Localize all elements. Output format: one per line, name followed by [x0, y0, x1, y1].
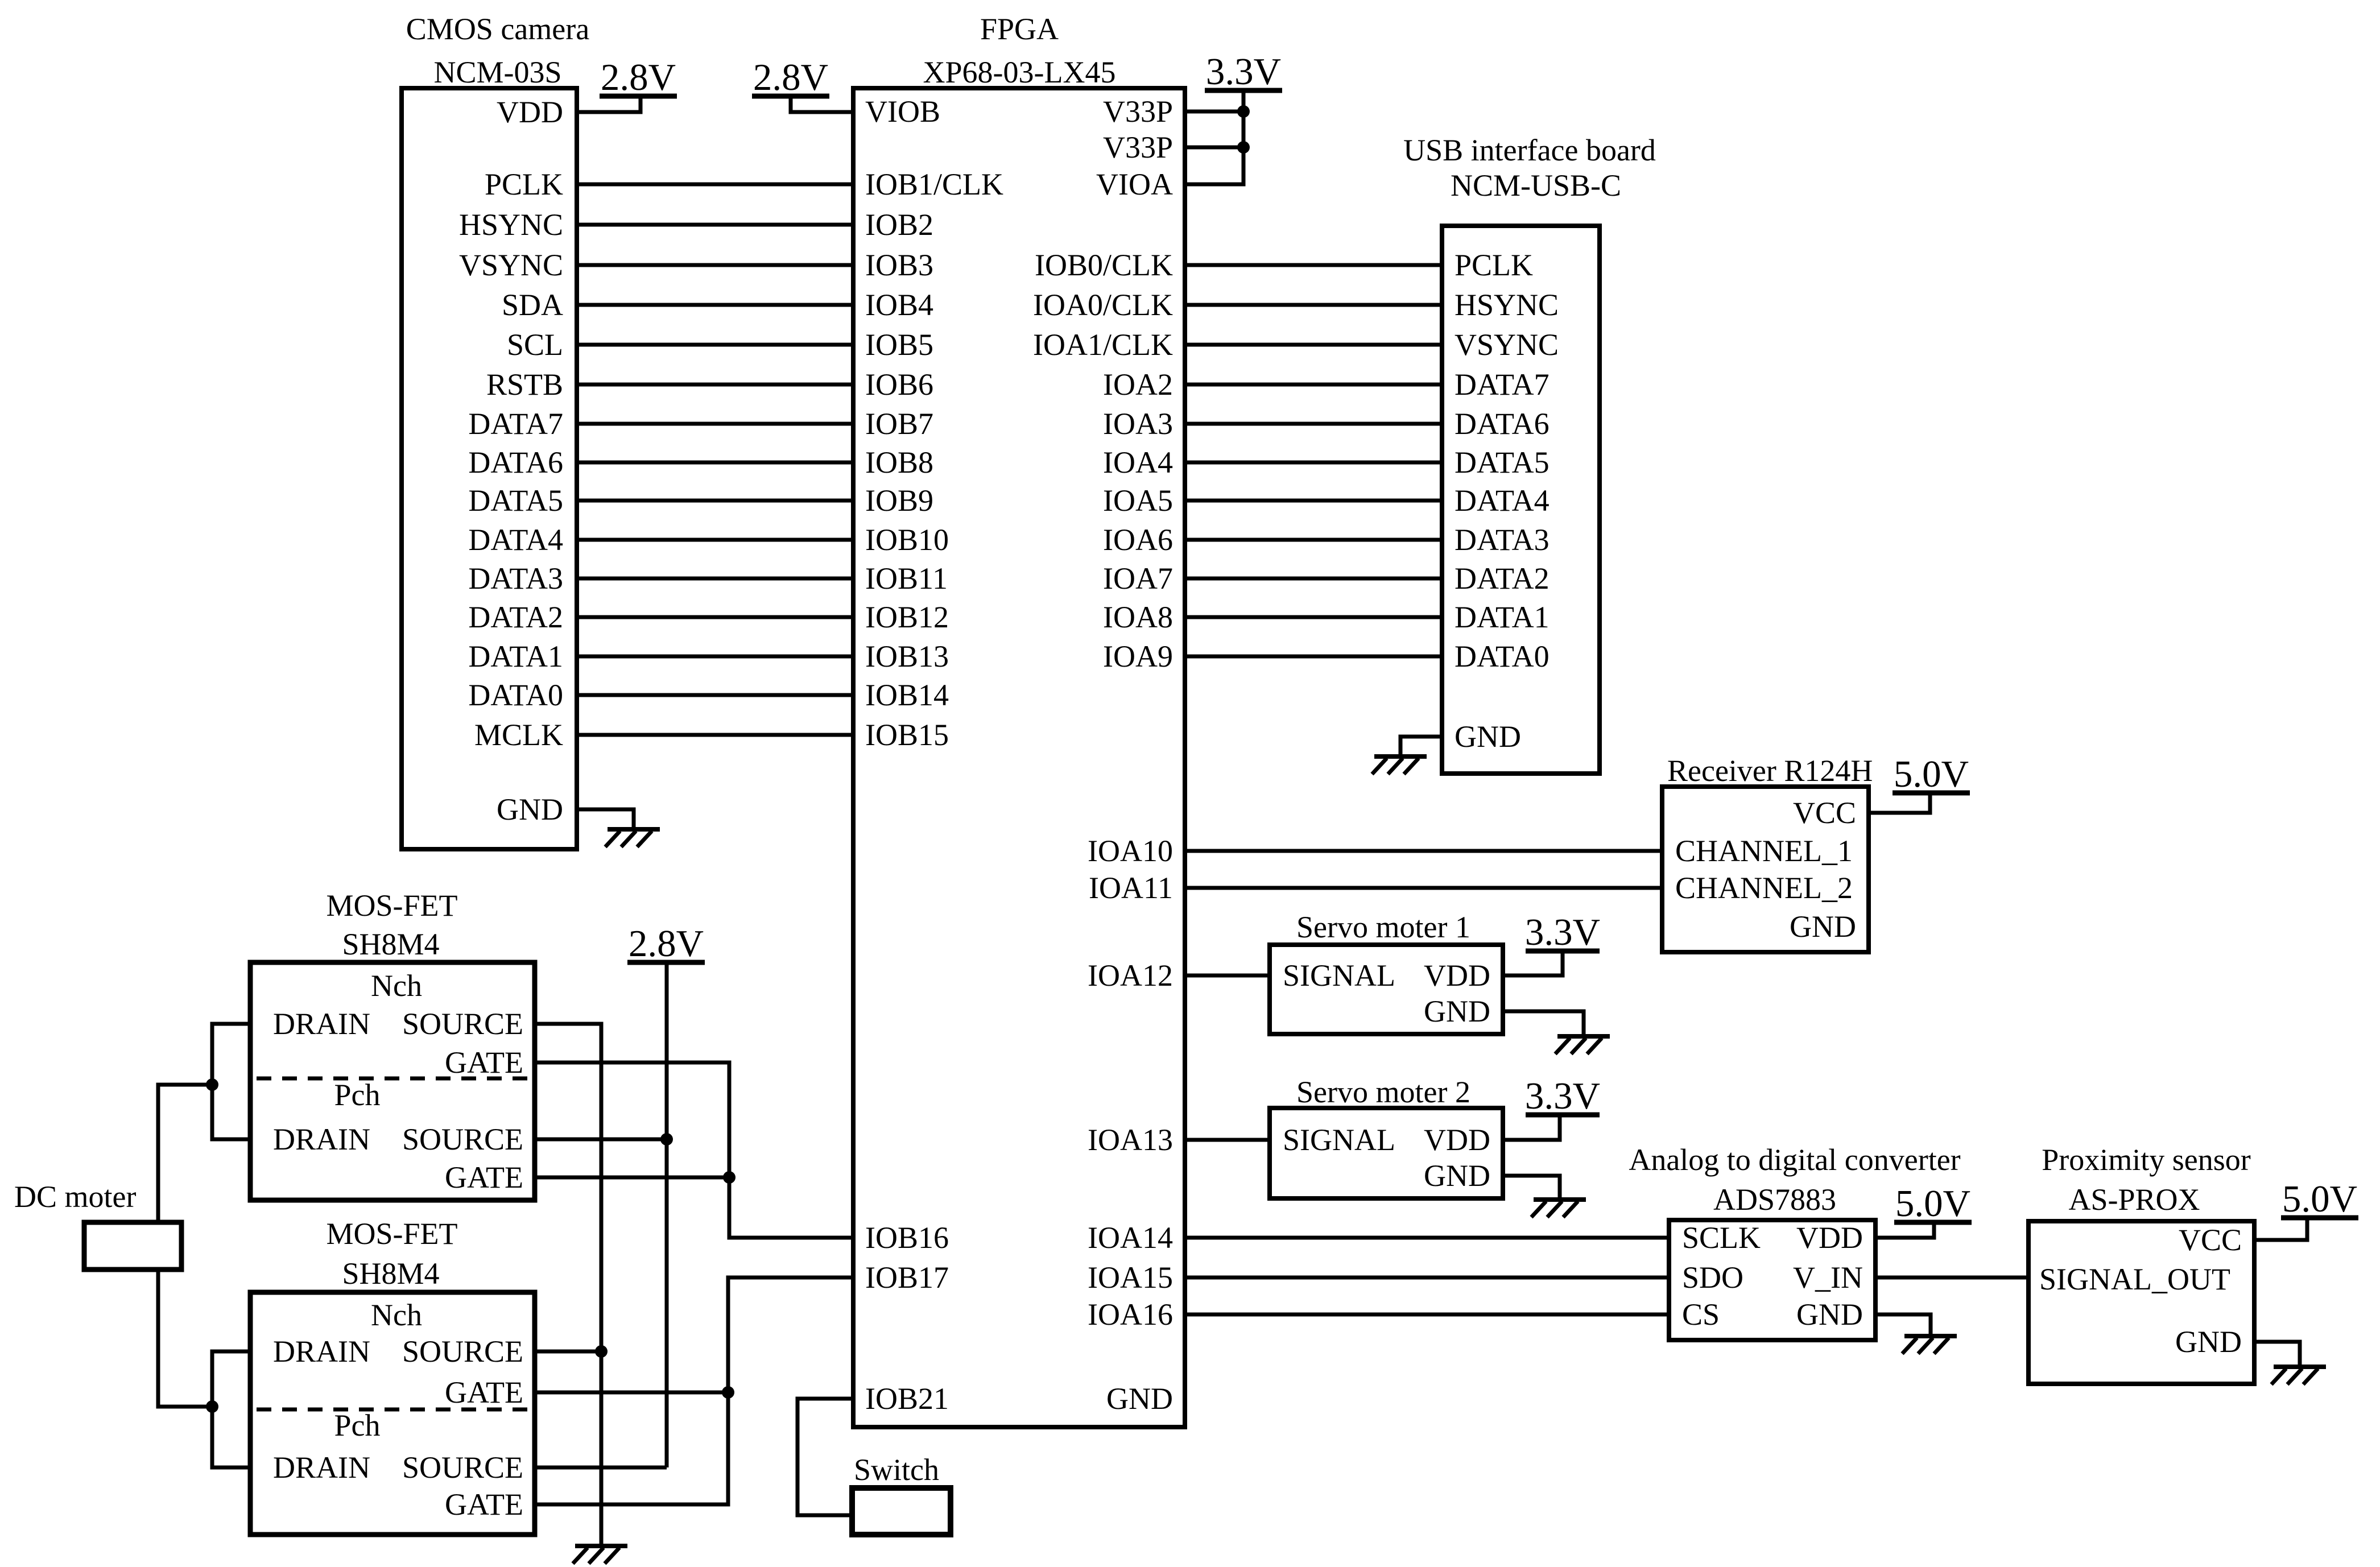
wire HSYNC-IOB2	[577, 223, 853, 227]
svg-text:CS: CS	[1682, 1297, 1720, 1332]
svg-text:Switch: Switch	[854, 1453, 939, 1487]
svg-text:GND: GND	[1455, 720, 1521, 754]
Receiver R124H box U4	[1662, 754, 1873, 952]
svg-text:IOB21: IOB21	[865, 1382, 949, 1416]
svg-text:IOB2: IOB2	[865, 208, 933, 242]
svg-text:SH8M4: SH8M4	[342, 927, 439, 961]
svg-text:2.8V: 2.8V	[753, 56, 828, 98]
wire receiver VCC to 5.0V	[1869, 793, 1930, 813]
svg-text:IOB8: IOB8	[865, 445, 933, 479]
wire SDA-IOB4	[577, 303, 853, 307]
svg-text:USB interface board: USB interface board	[1403, 133, 1656, 167]
wire IOA7-DATA2	[1185, 577, 1442, 581]
wire USB GND to ground	[1400, 737, 1442, 756]
wire Q2 gates to IOB17	[535, 1277, 853, 1392]
ground servo2 GND	[1531, 1200, 1586, 1217]
wire Q2 Nch SOURCE to ground rail	[535, 1350, 601, 1354]
wire V_IN-SIGNAL_OUT	[1875, 1276, 2028, 1280]
svg-text:5.0V: 5.0V	[1894, 753, 1969, 795]
wire IOA1/CLK-VSYNC	[1185, 343, 1442, 347]
svg-text:GATE: GATE	[445, 1045, 523, 1080]
svg-text:Pch: Pch	[334, 1408, 381, 1442]
wire DATA4-IOB10	[577, 538, 853, 542]
svg-text:IOA0/CLK: IOA0/CLK	[1033, 288, 1173, 322]
wire ADC VDD to 5.0V	[1875, 1222, 1934, 1238]
dashed divider Q1 Nch/Pch	[257, 1077, 531, 1081]
wire proximity VCC to 5.0V	[2254, 1218, 2307, 1240]
svg-text:VIOB: VIOB	[865, 94, 940, 129]
svg-text:PCLK: PCLK	[1455, 248, 1533, 282]
svg-text:IOB17: IOB17	[865, 1260, 949, 1295]
svg-text:IOA7: IOA7	[1103, 561, 1173, 596]
svg-text:VCC: VCC	[2179, 1223, 2242, 1257]
svg-text:VDD: VDD	[1424, 1123, 1490, 1157]
junction Q1 Pch source tap	[660, 1133, 673, 1146]
svg-text:IOB7: IOB7	[865, 407, 933, 441]
svg-text:GND: GND	[1106, 1382, 1173, 1416]
ground proximity GND	[2271, 1367, 2326, 1384]
svg-text:VDD: VDD	[1796, 1221, 1863, 1255]
power 2.8V motor rail	[627, 923, 705, 965]
svg-text:SOURCE: SOURCE	[402, 1450, 523, 1485]
wire DATA1-IOB13	[577, 655, 853, 659]
wire DATA7-IOB7	[577, 422, 853, 426]
CMOS camera NCM-03S box U1	[402, 12, 589, 849]
wire IOA8-DATA1	[1185, 615, 1442, 619]
svg-text:IOA6: IOA6	[1103, 523, 1173, 557]
ground camera GND	[605, 829, 660, 847]
svg-text:IOA1/CLK: IOA1/CLK	[1033, 328, 1173, 362]
power 2.8V FPGA VIOB rail	[752, 56, 829, 98]
wire Q1 Pch SOURCE to 2.8V rail	[535, 1138, 667, 1142]
svg-text:DATA6: DATA6	[1455, 407, 1550, 441]
svg-text:DATA1: DATA1	[1455, 600, 1550, 634]
svg-text:SOURCE: SOURCE	[402, 1122, 523, 1156]
svg-text:DATA4: DATA4	[1455, 483, 1550, 518]
svg-text:FPGA: FPGA	[980, 12, 1059, 46]
wire servo1 GND to ground	[1503, 1011, 1584, 1036]
wire IOA4-DATA5	[1185, 461, 1442, 465]
svg-text:DATA3: DATA3	[468, 561, 563, 596]
svg-text:DATA5: DATA5	[468, 483, 563, 518]
svg-text:DRAIN: DRAIN	[273, 1122, 370, 1156]
wire VSYNC-IOB3	[577, 263, 853, 267]
svg-text:DATA6: DATA6	[468, 445, 563, 479]
svg-text:IOA4: IOA4	[1103, 445, 1173, 479]
junction Q1 drain node	[206, 1078, 218, 1091]
wire DATA6-IOB8	[577, 461, 853, 465]
wire Q1 drains tie	[212, 1024, 250, 1139]
junction Q1 gate node	[723, 1171, 736, 1184]
power 5.0V receiver VCC rail	[1893, 753, 1970, 795]
wire V33P upper to rail	[1185, 110, 1243, 114]
svg-text:IOA10: IOA10	[1088, 834, 1173, 868]
power 5.0V proximity VCC rail	[2281, 1178, 2358, 1220]
junction V33P upper	[1237, 105, 1250, 118]
junction Q2 drain node	[206, 1400, 218, 1413]
wire servo2 VDD to 3.3V	[1503, 1115, 1560, 1140]
wire PCLK-IOB1/CLK	[577, 183, 853, 187]
wire IOB21 to Switch	[798, 1399, 853, 1515]
wire V33P lower to rail	[1185, 146, 1243, 150]
svg-text:IOA9: IOA9	[1103, 639, 1173, 673]
ground motor source GND	[573, 1546, 627, 1564]
svg-text:IOB6: IOB6	[865, 367, 933, 402]
svg-text:DATA2: DATA2	[468, 600, 563, 634]
wire servo1 VDD to 3.3V	[1503, 951, 1563, 975]
svg-text:Analog to digital converter: Analog to digital converter	[1629, 1143, 1960, 1177]
junction V33P lower	[1237, 141, 1250, 154]
wire IOA13-SIGNAL servo2	[1185, 1138, 1270, 1142]
wire IOA12-SIGNAL servo1	[1185, 974, 1270, 978]
svg-text:DATA7: DATA7	[1455, 367, 1550, 402]
wire Q1 Nch SOURCE down to ground rail	[535, 1024, 601, 1544]
wire IOB0/CLK-PCLK	[1185, 263, 1442, 267]
svg-text:IOA12: IOA12	[1088, 958, 1173, 993]
svg-text:VDD: VDD	[1424, 958, 1490, 993]
svg-text:IOB10: IOB10	[865, 523, 949, 557]
MOS-FET SH8M4 box Q1	[250, 888, 535, 1200]
wire IOA11-CHANNEL_2	[1185, 886, 1662, 890]
svg-text:VCC: VCC	[1793, 796, 1856, 830]
svg-text:IOA3: IOA3	[1103, 407, 1173, 441]
svg-text:GND: GND	[2175, 1325, 2242, 1359]
svg-text:5.0V: 5.0V	[1895, 1183, 1970, 1225]
wire IOA0/CLK-HSYNC	[1185, 303, 1442, 307]
svg-text:Nch: Nch	[371, 969, 422, 1003]
svg-text:VDD: VDD	[497, 95, 563, 129]
wire IOA16-CS	[1185, 1313, 1669, 1317]
svg-text:DC moter: DC moter	[14, 1180, 136, 1214]
svg-text:IOA14: IOA14	[1088, 1221, 1173, 1255]
svg-text:CHANNEL_1: CHANNEL_1	[1675, 834, 1853, 868]
svg-text:GND: GND	[1790, 909, 1856, 944]
wire IOA9-DATA0	[1185, 655, 1442, 659]
ground ADC GND	[1902, 1336, 1957, 1354]
svg-text:MCLK: MCLK	[474, 718, 563, 752]
wire RSTB-IOB6	[577, 383, 853, 387]
svg-text:IOB12: IOB12	[865, 600, 949, 634]
svg-text:VSYNC: VSYNC	[1455, 328, 1559, 362]
wire DATA5-IOB9	[577, 499, 853, 503]
junction Q2 gate node	[722, 1386, 734, 1399]
svg-text:NCM-USB-C: NCM-USB-C	[1451, 168, 1621, 202]
svg-text:IOB0/CLK: IOB0/CLK	[1035, 248, 1173, 282]
wire DATA2-IOB12	[577, 615, 853, 619]
DC moter box M3	[14, 1180, 181, 1270]
svg-text:CHANNEL_2: CHANNEL_2	[1675, 871, 1853, 905]
wire DATA0-IOB14	[577, 693, 853, 697]
ground USB GND	[1372, 756, 1427, 774]
svg-text:IOB15: IOB15	[865, 718, 949, 752]
wire Q2 Pch SOURCE to 2.8V rail	[535, 1466, 667, 1470]
svg-text:IOB14: IOB14	[865, 678, 949, 712]
svg-text:MOS-FET: MOS-FET	[326, 888, 457, 923]
wire IOA15-SDO	[1185, 1276, 1669, 1280]
svg-text:HSYNC: HSYNC	[459, 208, 563, 242]
wire VIOB to 2.8V	[791, 96, 853, 112]
svg-text:IOA13: IOA13	[1088, 1123, 1173, 1157]
svg-text:IOB4: IOB4	[865, 288, 933, 322]
svg-text:V_IN: V_IN	[1793, 1260, 1863, 1295]
svg-text:AS-PROX: AS-PROX	[2068, 1183, 2200, 1217]
svg-text:VSYNC: VSYNC	[459, 248, 563, 282]
wire IOA14-SCLK	[1185, 1236, 1669, 1240]
ground servo1 GND	[1555, 1036, 1610, 1054]
power 5.0V ADC VDD rail	[1894, 1183, 1972, 1225]
wire Q2 drains tie	[212, 1351, 250, 1467]
svg-text:SDO: SDO	[1682, 1260, 1743, 1295]
svg-text:IOB3: IOB3	[865, 248, 933, 282]
svg-text:3.3V: 3.3V	[1206, 51, 1281, 93]
svg-text:GND: GND	[1424, 994, 1490, 1028]
power 3.3V servo2 VDD rail	[1525, 1075, 1600, 1117]
svg-text:GND: GND	[497, 792, 563, 826]
wire Q1 gates to IOB16	[535, 1062, 853, 1238]
svg-text:SCLK: SCLK	[1682, 1221, 1761, 1255]
svg-text:IOA11: IOA11	[1089, 871, 1173, 905]
svg-text:V33P: V33P	[1103, 94, 1173, 129]
svg-text:DATA4: DATA4	[468, 523, 563, 557]
svg-text:DATA5: DATA5	[1455, 445, 1550, 479]
svg-text:CMOS camera: CMOS camera	[406, 12, 589, 46]
MOS-FET SH8M4 box Q2	[250, 1217, 535, 1535]
svg-text:IOB13: IOB13	[865, 639, 949, 673]
svg-text:SIGNAL: SIGNAL	[1283, 958, 1395, 993]
Proximity sensor AS-PROX box U6	[2028, 1143, 2254, 1384]
wire Q1 drain node to DC moter	[158, 1085, 212, 1222]
svg-text:GATE: GATE	[445, 1375, 523, 1409]
Servo moter 1 box M1	[1270, 910, 1503, 1034]
svg-text:DRAIN: DRAIN	[273, 1450, 370, 1485]
svg-text:GND: GND	[1424, 1159, 1490, 1193]
svg-text:IOA8: IOA8	[1103, 600, 1173, 634]
svg-text:SCL: SCL	[507, 328, 563, 362]
svg-text:NCM-03S: NCM-03S	[433, 55, 561, 89]
svg-text:RSTB: RSTB	[486, 367, 563, 402]
power 3.3V FPGA V33P rail	[1205, 51, 1282, 93]
wire Q2 Pch GATE tap	[535, 1392, 728, 1504]
wire DC moter to Q2 drain node	[158, 1270, 212, 1407]
svg-text:IOA15: IOA15	[1088, 1260, 1173, 1295]
USB interface board NCM-USB-C box U3	[1403, 133, 1656, 774]
svg-text:DRAIN: DRAIN	[273, 1334, 370, 1368]
wire VDD to 2.8V	[577, 96, 641, 112]
wire IOA5-DATA4	[1185, 499, 1442, 503]
svg-text:SIGNAL_OUT: SIGNAL_OUT	[2039, 1262, 2230, 1296]
svg-text:2.8V: 2.8V	[601, 56, 676, 98]
svg-text:DATA1: DATA1	[468, 639, 563, 673]
svg-text:SOURCE: SOURCE	[402, 1334, 523, 1368]
dashed divider Q2 Nch/Pch	[257, 1408, 531, 1412]
wire IOA6-DATA3	[1185, 538, 1442, 542]
junction source node	[595, 1345, 608, 1358]
svg-text:MOS-FET: MOS-FET	[326, 1217, 457, 1251]
svg-text:3.3V: 3.3V	[1525, 911, 1600, 953]
wire SCL-IOB5	[577, 343, 853, 347]
svg-text:IOB1/CLK: IOB1/CLK	[865, 167, 1003, 201]
svg-text:IOA16: IOA16	[1088, 1297, 1173, 1332]
svg-text:Proximity sensor: Proximity sensor	[2042, 1143, 2251, 1177]
svg-text:IOA2: IOA2	[1103, 367, 1173, 402]
wire IOA2-DATA7	[1185, 383, 1442, 387]
svg-text:Pch: Pch	[334, 1078, 381, 1112]
svg-text:SH8M4: SH8M4	[342, 1256, 439, 1291]
svg-text:5.0V: 5.0V	[2282, 1178, 2357, 1220]
svg-text:IOB9: IOB9	[865, 483, 933, 518]
svg-text:DATA0: DATA0	[1455, 639, 1550, 673]
Analog to digital converter ADS7883 box U5	[1629, 1143, 1960, 1340]
wire IOA10-CHANNEL_1	[1185, 849, 1662, 853]
wire 3.3V rail vertical to VIOA	[1185, 90, 1243, 184]
svg-text:DATA0: DATA0	[468, 678, 563, 712]
svg-text:2.8V: 2.8V	[629, 923, 704, 965]
wire proximity GND to ground	[2254, 1342, 2300, 1365]
svg-text:GATE: GATE	[445, 1487, 523, 1521]
svg-text:3.3V: 3.3V	[1525, 1075, 1600, 1117]
svg-text:SOURCE: SOURCE	[402, 1007, 523, 1041]
Switch box S1	[852, 1453, 951, 1535]
wire 2.8V motor rail vertical	[665, 962, 669, 1467]
svg-text:Nch: Nch	[371, 1298, 422, 1332]
svg-text:ADS7883: ADS7883	[1713, 1183, 1836, 1217]
power 3.3V servo1 VDD rail	[1525, 911, 1600, 953]
wire Q1 Pch GATE tap	[535, 1176, 729, 1180]
svg-text:V33P: V33P	[1103, 130, 1173, 164]
power 2.8V camera VDD rail	[600, 56, 677, 98]
Servo moter 2 box M2	[1270, 1075, 1503, 1198]
svg-text:SIGNAL: SIGNAL	[1283, 1123, 1395, 1157]
wire servo2 GND to ground	[1503, 1176, 1560, 1198]
wire IOA3-DATA6	[1185, 422, 1442, 426]
svg-text:IOA5: IOA5	[1103, 483, 1173, 518]
svg-text:Servo moter 1: Servo moter 1	[1296, 910, 1470, 944]
svg-text:IOB16: IOB16	[865, 1221, 949, 1255]
svg-text:GATE: GATE	[445, 1160, 523, 1194]
svg-text:VIOA: VIOA	[1096, 167, 1173, 201]
svg-text:IOB5: IOB5	[865, 328, 933, 362]
svg-text:PCLK: PCLK	[485, 167, 563, 201]
svg-text:Receiver R124H: Receiver R124H	[1667, 754, 1873, 788]
svg-text:DATA2: DATA2	[1455, 561, 1550, 596]
svg-text:IOB11: IOB11	[865, 561, 948, 596]
wire MCLK-IOB15	[577, 733, 853, 737]
svg-text:DRAIN: DRAIN	[273, 1007, 370, 1041]
svg-text:DATA7: DATA7	[468, 407, 563, 441]
svg-text:GND: GND	[1796, 1297, 1863, 1332]
svg-text:SDA: SDA	[502, 288, 563, 322]
wire ADC GND to ground	[1875, 1314, 1931, 1336]
wire DATA3-IOB11	[577, 577, 853, 581]
svg-text:DATA3: DATA3	[1455, 523, 1550, 557]
svg-text:XP68-03-LX45: XP68-03-LX45	[923, 55, 1116, 89]
wire CMOS GND to ground	[577, 809, 634, 829]
svg-text:HSYNC: HSYNC	[1455, 288, 1559, 322]
FPGA XP68-03-LX45 box U2	[853, 12, 1185, 1427]
svg-text:Servo moter 2: Servo moter 2	[1296, 1075, 1470, 1109]
